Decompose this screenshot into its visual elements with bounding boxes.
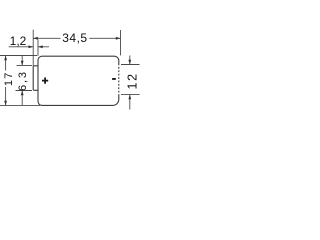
- svg-text:12: 12: [125, 72, 139, 89]
- svg-text:1,2: 1,2: [10, 34, 27, 48]
- dim 12 dimension line: [129, 56, 131, 110]
- dim 12 top extension line: [121, 64, 140, 66]
- positive terminal tab: [33, 66, 38, 91]
- plus polarity mark: [42, 78, 48, 84]
- dim 34,5 left extension line: [32, 30, 34, 66]
- dim 34,5 right extension line: [120, 30, 122, 55]
- battery body outline: [38, 56, 119, 105]
- dim 17 arrowheads: [4, 56, 7, 106]
- dim 34,5 dimension line: [33, 37, 120, 39]
- dim 6,3 top extension line: [17, 65, 33, 67]
- minus polarity mark: [112, 78, 116, 80]
- dim 6,3 dimension line: [21, 56, 23, 105]
- dim 1,2 dimension line: [9, 46, 49, 48]
- dim 6,3 bottom extension line: [16, 90, 33, 92]
- dim 17 bottom extension line: [0, 104, 40, 106]
- dim 12 bottom extension line: [121, 94, 140, 96]
- dim 1,2 right extension line: [37, 40, 39, 57]
- svg-text:17: 17: [3, 71, 15, 86]
- dim 12 arrowheads: [128, 60, 131, 100]
- negative terminal edge (dashed): [118, 64, 120, 96]
- dim 17 dimension line: [5, 56, 7, 106]
- svg-text:34,5: 34,5: [62, 31, 87, 45]
- dim 1,2 arrowheads: [29, 45, 43, 48]
- svg-text:6,3: 6,3: [17, 70, 29, 91]
- dim 17 top extension line: [0, 55, 37, 57]
- dim 6,3 arrowheads: [21, 61, 24, 95]
- dim 34,5 arrowheads: [33, 37, 120, 40]
